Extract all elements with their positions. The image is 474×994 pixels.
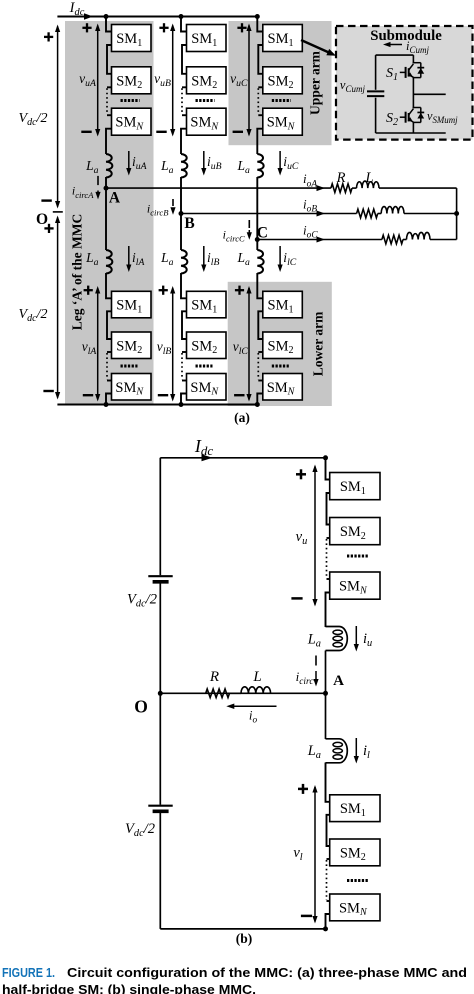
junction dot node A part b <box>323 691 328 696</box>
submodule SM1 upper part b <box>330 473 380 500</box>
dotted wire SM2-SMN lower part b <box>326 860 328 900</box>
plus sign upper arm leg A <box>82 27 91 29</box>
arm voltage arrow vuB <box>172 26 174 135</box>
junction dot top bus leg B <box>179 14 184 19</box>
inductor La upper leg A <box>106 154 112 178</box>
svg-text:iu: iu <box>363 631 372 649</box>
node B junction dot <box>179 211 184 216</box>
dotted wire SM2-SMN upper leg B <box>181 88 183 114</box>
wire phase B to right bus <box>404 213 457 215</box>
svg-text:Vdc/2: Vdc/2 <box>125 821 155 839</box>
wire SMN to inductor leg C <box>257 129 263 154</box>
svg-text:L: L <box>364 170 373 186</box>
svg-text:ioC: ioC <box>303 223 318 241</box>
minus sign vu part b <box>291 597 302 600</box>
lower arm gray background (leg C) <box>228 282 332 406</box>
wire left rail mid part b <box>159 584 161 805</box>
submodule SMN upper part b <box>330 572 380 599</box>
Vdc/2 measurement arrow upper <box>57 27 59 207</box>
svg-text:icircC: icircC <box>223 228 245 244</box>
svg-text:vlB: vlB <box>157 339 172 357</box>
submodule inset box <box>336 26 473 140</box>
diode D2 <box>413 107 421 109</box>
svg-text:La: La <box>307 743 321 761</box>
wire phase C output line <box>257 239 382 241</box>
svg-text:A: A <box>109 190 121 207</box>
wire SMN to bottom bus leg C <box>257 394 263 405</box>
submodule current arrow iCumj <box>386 44 402 46</box>
ellipsis dashes upper arm leg C <box>272 99 291 102</box>
wire inductor to node A part b <box>325 651 327 694</box>
wire SM1-SM2 upper leg A <box>107 45 112 74</box>
wire SM1-SM2 lower leg C <box>258 311 263 339</box>
svg-text:Idc: Idc <box>194 436 214 458</box>
wire SMN hook upper leg C <box>258 114 263 116</box>
arm voltage arrow vlC <box>248 288 250 400</box>
wire submodule cap bottom <box>375 98 377 133</box>
wire SMN to bottom bus leg A <box>106 394 112 405</box>
wire SM2 hook lower leg B <box>182 351 187 353</box>
arm current arrow iu part b <box>355 626 357 646</box>
wire SM2 hook upper leg B <box>182 86 187 88</box>
wire node B to lower inductor <box>180 214 182 251</box>
capacitor Cumj <box>367 90 384 92</box>
circulating current arrow icircC <box>248 220 250 228</box>
wire bottom dc bus <box>57 404 257 406</box>
dotted wire SM2-SMN lower leg A <box>106 353 108 380</box>
wire SM2 hook upper part b <box>327 537 330 539</box>
ellipsis dashes upper arm leg A <box>121 99 140 102</box>
wire node C to lower inductor <box>256 240 258 251</box>
wire SMN to inductor leg B <box>181 129 187 154</box>
plus sign vu part b <box>296 473 306 476</box>
wire SMN to inductor leg A <box>106 129 112 154</box>
svg-text:half-bridge SM; (b) single-pha: half-bridge SM; (b) single-phase MMC. <box>2 982 256 994</box>
svg-text:vl: vl <box>293 845 302 863</box>
submodule SM1 lower part b <box>330 795 380 822</box>
submodule SM2 upper arm leg A <box>112 67 152 94</box>
svg-text:La: La <box>236 158 250 176</box>
svg-text:La: La <box>160 158 174 176</box>
wire inductor to node C <box>256 177 258 240</box>
leg A gray background <box>65 21 154 405</box>
junction dot top bus leg A <box>104 14 109 19</box>
dotted wire SM2-SMN lower leg C <box>257 353 259 380</box>
wire node A to lower inductor <box>105 188 107 250</box>
plus sign lower left <box>44 227 53 229</box>
svg-text:La: La <box>307 632 321 650</box>
junction dot right bus <box>454 211 459 216</box>
wire phase A to right bus <box>379 187 457 189</box>
circulating current arrow icircA <box>97 176 99 185</box>
inductor La lower leg C <box>257 250 263 274</box>
svg-text:ilC: ilC <box>283 250 296 268</box>
node A junction dot <box>104 186 109 191</box>
submodule SM1 upper arm leg A <box>112 25 152 52</box>
wire submodule top rail <box>376 54 414 56</box>
wire S1 collector rail <box>412 55 414 63</box>
node C junction dot <box>255 237 260 242</box>
wire SMN hook upper leg A <box>107 114 112 116</box>
svg-text:Leg ‘A’ of the MMC: Leg ‘A’ of the MMC <box>70 214 85 330</box>
wire inductor to SM1 lower leg B <box>181 273 187 298</box>
junction dot top bus leg C <box>255 14 260 19</box>
wire phase B output line <box>181 213 357 215</box>
wire phase C to right bus <box>430 239 457 241</box>
circulating current arrow icircB <box>172 199 174 206</box>
battery Vdc/2 lower part b <box>148 805 172 807</box>
wire inductor to SM1 lower leg C <box>257 273 263 298</box>
svg-text:Upper arm: Upper arm <box>308 50 323 115</box>
inductor L phase C <box>407 232 431 239</box>
output current arrow ioC <box>317 237 326 243</box>
resistor R phase A <box>331 184 352 193</box>
arm current arrow ilC <box>279 246 281 266</box>
arm voltage arrow vu part b <box>314 467 316 605</box>
wire S1 emitter to S2 <box>412 78 414 109</box>
svg-text:icirc: icirc <box>296 669 315 687</box>
wire SM2 hook lower leg A <box>107 351 112 353</box>
svg-text:vuB: vuB <box>154 71 171 89</box>
svg-text:Idc: Idc <box>69 0 85 18</box>
arm current arrow ilA <box>128 246 130 266</box>
ellipsis dashes lower arm leg C <box>272 365 289 368</box>
plus sign vl part b <box>298 788 308 791</box>
wire left rail top part b <box>159 458 161 575</box>
junction dot node O part b <box>158 691 163 696</box>
submodule SM2 upper arm leg C <box>263 67 303 94</box>
submodule SM2 lower arm leg A <box>112 332 152 359</box>
plus sign lower arm leg C <box>235 289 244 291</box>
inductor L phase B <box>381 207 404 214</box>
svg-text:ilB: ilB <box>207 250 219 268</box>
ellipsis dashes lower arm leg B <box>196 365 213 368</box>
svg-text:FIGURE 1.: FIGURE 1. <box>2 965 55 980</box>
inductor La lower leg A <box>106 250 112 274</box>
wire R-L phase A <box>352 187 357 189</box>
junction dot bottom bus leg B <box>179 402 184 407</box>
wire top to SM1 part b <box>326 458 330 480</box>
minus sign lower arm leg A <box>83 394 93 396</box>
wire SM1-SM2 upper leg B <box>182 45 187 74</box>
wire SMN hook lower part b <box>327 900 330 902</box>
wire right neutral bus <box>456 188 458 239</box>
transistor S1 <box>400 71 406 73</box>
svg-text:Vdc/2: Vdc/2 <box>127 592 157 610</box>
wire SMN hook lower leg A <box>107 380 112 382</box>
wire SM2 hook upper leg A <box>107 86 112 88</box>
minus sign upper arm leg B <box>156 131 166 133</box>
wire top bus to SM1 leg B <box>181 17 187 32</box>
svg-text:iuB: iuB <box>207 154 222 172</box>
svg-text:O: O <box>36 211 48 228</box>
svg-text:R: R <box>209 669 219 685</box>
wire SM2 hook lower leg C <box>258 351 263 353</box>
arm current arrow il part b <box>355 738 357 758</box>
Idc arrow part b <box>202 454 213 461</box>
wire SM1-SM2 upper leg C <box>258 45 263 74</box>
plus sign upper left <box>44 36 53 38</box>
inductor La lower part b <box>326 739 348 763</box>
transistor S2 <box>400 116 406 118</box>
submodule SMN lower arm leg C <box>263 374 303 401</box>
dotted wire SM2-SMN upper leg C <box>257 88 259 114</box>
minus sign upper arm leg C <box>233 131 243 133</box>
plus sign upper arm leg B <box>159 27 168 29</box>
wire submodule mid output <box>413 93 445 95</box>
svg-text:iuC: iuC <box>283 154 299 172</box>
minus sign upper left <box>41 199 51 201</box>
submodule SM2 upper arm leg B <box>187 67 227 94</box>
Vdc/2 measurement arrow lower <box>57 218 59 398</box>
circ current arrow icirc part b <box>315 656 317 666</box>
arm current arrow iuB <box>203 151 205 170</box>
inductor La upper part b <box>326 627 348 651</box>
svg-text:(b): (b) <box>236 931 253 946</box>
wire SM1-SM2 lower part b <box>327 815 330 846</box>
wire SMN hook upper leg B <box>182 114 187 116</box>
wire SMN to inductor part b <box>326 593 330 628</box>
wire R-L part b <box>230 692 242 694</box>
arm current arrow ilB <box>203 246 205 266</box>
output current arrow ioA <box>317 185 326 191</box>
minus sign lower arm leg C <box>234 394 244 396</box>
arm current arrow iuC <box>279 151 281 170</box>
arm voltage arrow vl part b <box>314 787 316 922</box>
wire node A to lower inductor part b <box>325 693 327 739</box>
svg-text:il: il <box>363 743 370 761</box>
submodule SMN lower part b <box>330 894 380 921</box>
svg-text:vu: vu <box>296 529 308 547</box>
wire left rail bottom part b <box>159 813 161 929</box>
wire inductor to SM1 lower leg A <box>106 273 112 298</box>
inductor La upper leg C <box>257 154 263 178</box>
plus sign lower arm leg B <box>159 289 168 291</box>
inductor La upper leg B <box>181 154 187 178</box>
arm voltage arrow vuC <box>248 26 250 135</box>
svg-text:Vdc/2: Vdc/2 <box>19 307 48 324</box>
upper arm gray background (leg C) <box>229 21 332 145</box>
submodule SM1 upper arm leg C <box>263 25 303 52</box>
svg-text:Circuit configuration of the M: Circuit configuration of the MMC: (a) th… <box>67 965 467 980</box>
wire inductor to node B <box>180 177 182 214</box>
output current arrow io part b <box>229 705 277 707</box>
wire bottom rail part b <box>160 928 325 930</box>
junction dot bottom right part b <box>323 926 328 931</box>
dotted wire SM2-SMN upper part b <box>326 539 328 578</box>
ellipsis dashes lower arm leg A <box>121 365 138 368</box>
submodule SMN upper arm leg A <box>112 108 152 135</box>
output current arrow ioB <box>317 211 326 217</box>
junction dot bottom bus leg C <box>255 402 260 407</box>
inductor La lower leg B <box>181 250 187 274</box>
dotted wire SM2-SMN lower leg B <box>181 353 183 380</box>
wire SM2 hook upper leg C <box>258 86 263 88</box>
wire SMN hook lower leg C <box>258 380 263 382</box>
arrow SM1 to submodule inset <box>301 40 330 53</box>
svg-text:O: O <box>134 697 148 717</box>
plus sign upper arm leg C <box>237 27 246 29</box>
svg-text:ioB: ioB <box>303 197 317 215</box>
arm voltage arrow vlA <box>97 288 99 400</box>
svg-text:Vdc/2: Vdc/2 <box>19 111 48 128</box>
dotted wire SM2-SMN upper leg A <box>106 88 108 114</box>
wire top rail part b <box>160 457 325 459</box>
resistor R phase B <box>357 209 378 218</box>
submodule SMN upper arm leg B <box>187 108 227 135</box>
svg-text:A: A <box>333 673 344 689</box>
wire inductor to node A <box>105 177 107 188</box>
svg-text:Lower arm: Lower arm <box>311 311 326 376</box>
ellipsis dashes upper part b <box>347 555 368 558</box>
node O tick <box>53 211 63 213</box>
submodule SMN upper arm leg C <box>263 108 303 135</box>
wire submodule bottom rail <box>376 132 446 134</box>
battery Vdc/2 upper part b <box>148 575 172 577</box>
minus sign upper arm leg A <box>81 131 91 133</box>
submodule SM2 lower arm leg B <box>187 332 227 359</box>
wire SMN hook lower leg B <box>182 380 187 382</box>
svg-text:ioA: ioA <box>303 171 317 189</box>
junction dot top right part b <box>323 455 328 460</box>
wire top dc bus <box>57 16 257 18</box>
wire top bus to SM1 leg C <box>257 17 263 32</box>
wire S2 emitter to bottom <box>412 122 414 133</box>
wire submodule cap top <box>375 55 377 90</box>
submodule SM1 lower arm leg B <box>187 291 227 318</box>
svg-text:La: La <box>160 250 174 268</box>
wire R-L phase C <box>403 239 407 241</box>
submodule SM2 lower arm leg C <box>263 332 303 359</box>
Idc current arrow <box>84 13 93 20</box>
submodule SM2 upper part b <box>330 518 380 545</box>
ellipsis dashes upper arm leg B <box>196 99 215 102</box>
submodule SMN lower arm leg B <box>187 374 227 401</box>
junction dot bottom bus leg A <box>104 402 109 407</box>
svg-text:La: La <box>236 250 250 268</box>
wire SM1-SM2 upper part b <box>327 493 330 525</box>
wire inductor to SM1 lower part b <box>326 763 330 802</box>
wire phase A output line <box>106 187 331 189</box>
inductor L part b <box>241 687 271 694</box>
diode D1 <box>413 62 421 64</box>
arm voltage arrow vlB <box>172 288 174 400</box>
inductor L phase A <box>357 181 380 188</box>
submodule SMN lower arm leg A <box>112 374 152 401</box>
svg-text:io: io <box>249 708 258 726</box>
wire O to A part b <box>160 692 325 694</box>
plus sign lower arm leg A <box>84 289 93 291</box>
ellipsis dashes lower part b <box>347 879 368 882</box>
resistor R part b <box>206 689 230 698</box>
svg-text:L: L <box>252 669 261 685</box>
wire top bus to SM1 leg A <box>106 17 112 32</box>
minus sign vl part b <box>301 915 312 918</box>
svg-text:B: B <box>184 215 194 232</box>
resistor R phase C <box>382 235 403 244</box>
wire SMN hook upper part b <box>327 578 330 580</box>
wire SM2 hook lower part b <box>327 858 330 860</box>
wire SMN to bottom bus leg B <box>181 394 187 405</box>
minus sign lower left <box>43 390 53 392</box>
arm current arrow iuA <box>128 151 130 170</box>
submodule SM2 lower part b <box>330 839 380 866</box>
wire SM1-SM2 lower leg A <box>107 311 112 339</box>
submodule SM1 lower arm leg A <box>112 291 152 318</box>
minus sign lower arm leg B <box>158 394 168 396</box>
svg-text:(a): (a) <box>234 410 250 425</box>
wire SM1-SM2 lower leg B <box>182 311 187 339</box>
submodule SM1 lower arm leg C <box>263 291 303 318</box>
wire R-L phase B <box>378 213 382 215</box>
arm voltage arrow vuA <box>97 26 99 135</box>
wire SMN to bottom part b <box>326 914 330 929</box>
svg-text:R: R <box>336 170 346 186</box>
submodule SM1 upper arm leg B <box>187 25 227 52</box>
